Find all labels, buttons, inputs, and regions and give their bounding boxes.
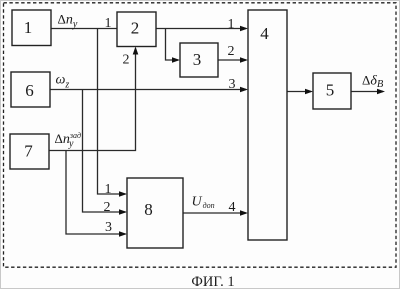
svg-text:ωz: ωz xyxy=(56,73,70,91)
svg-text:3: 3 xyxy=(193,50,202,69)
svg-text:2: 2 xyxy=(123,53,130,68)
svg-text:1: 1 xyxy=(105,16,112,31)
svg-text:8: 8 xyxy=(144,200,153,219)
svg-text:5: 5 xyxy=(326,81,335,100)
svg-text:Uдоп: Uдоп xyxy=(192,195,215,211)
svg-text:6: 6 xyxy=(25,81,34,100)
svg-text:ΔδВ: ΔδВ xyxy=(362,73,384,91)
svg-text:1: 1 xyxy=(105,182,112,197)
svg-text:2: 2 xyxy=(228,44,235,59)
svg-text:7: 7 xyxy=(24,142,33,161)
svg-text:4: 4 xyxy=(260,24,269,43)
svg-text:3: 3 xyxy=(105,220,112,235)
svg-text:1: 1 xyxy=(228,17,235,32)
svg-text:Δny: Δny xyxy=(58,12,78,31)
svg-text:1: 1 xyxy=(24,18,33,37)
svg-text:ФИГ. 1: ФИГ. 1 xyxy=(191,274,234,289)
svg-text:2: 2 xyxy=(131,19,140,38)
svg-text:3: 3 xyxy=(229,77,236,92)
svg-text:4: 4 xyxy=(229,200,236,215)
svg-text:2: 2 xyxy=(104,200,111,215)
svg-text:Δnзадy: Δnзадy xyxy=(55,131,82,150)
